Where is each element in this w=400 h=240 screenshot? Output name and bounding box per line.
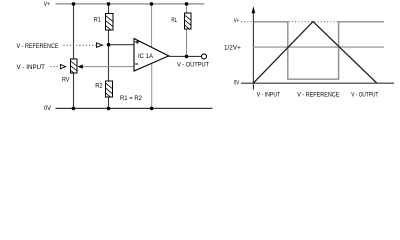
node bottom rail junction F — [107, 107, 111, 111]
wire R2 bottom leg — [108, 97, 110, 108]
node reference junction — [107, 43, 111, 47]
svg-text:IC 1A: IC 1A — [138, 53, 154, 60]
wire RL top leg — [186, 4, 188, 13]
svg-text:V - OUTPUT: V - OUTPUT — [351, 92, 378, 99]
wire op-amp V- supply — [151, 63, 153, 108]
node top rail junction B — [107, 2, 111, 6]
svg-text:R1 = R2: R1 = R2 — [120, 95, 142, 102]
svg-text:V - REFERENCE: V - REFERENCE — [297, 92, 339, 99]
dashed leader V - REFERENCE — [63, 44, 96, 46]
RV wiper arrow — [78, 65, 83, 69]
resistor RL — [185, 13, 192, 29]
node output junction — [185, 55, 189, 59]
wire top rail V+ — [56, 3, 205, 5]
wire RV top leg — [73, 4, 75, 59]
svg-text:V+: V+ — [44, 1, 50, 8]
node bottom rail junction E — [72, 107, 76, 111]
graph half supply level line — [253, 46, 384, 48]
op-amp plus input marker — [135, 40, 139, 44]
potentiometer RV — [71, 59, 78, 73]
svg-text:V+: V+ — [234, 18, 239, 25]
graph V+ dotted level — [289, 21, 338, 23]
svg-text:R1: R1 — [94, 16, 101, 23]
node bottom rail junction G — [150, 107, 154, 111]
op-amp IC1A triangle — [134, 39, 169, 72]
wire inverting input from RV wiper — [82, 66, 134, 68]
svg-text:0V: 0V — [44, 105, 52, 112]
graph output square wave — [254, 22, 384, 79]
graph 0V baseline — [241, 82, 394, 84]
graph V+ leader dots — [241, 21, 252, 23]
graph input triangle wave — [253, 22, 376, 84]
wire R1 top leg — [108, 4, 110, 14]
op-amp minus input marker — [135, 63, 138, 65]
wire RL bottom leg — [186, 29, 188, 56]
wire R1-R2 connector — [108, 30, 110, 81]
node top rail junction A — [72, 2, 76, 6]
node top rail junction D — [185, 2, 189, 6]
resistor R2 — [106, 81, 113, 97]
svg-text:RV: RV — [62, 77, 70, 84]
svg-text:R2: R2 — [95, 83, 103, 90]
wire non-inverting input — [109, 44, 135, 46]
arrowhead V - INPUT — [60, 64, 65, 68]
svg-text:V - REFERENCE: V - REFERENCE — [17, 43, 59, 50]
dashed leader V - INPUT — [50, 66, 60, 68]
resistor R1 — [106, 14, 114, 31]
graph y-axis — [252, 11, 254, 90]
svg-text:0V: 0V — [234, 80, 240, 87]
svg-text:V - OUTPUT: V - OUTPUT — [177, 62, 209, 69]
graph y-axis arrowhead — [252, 6, 256, 13]
wire bottom rail 0V — [56, 107, 213, 109]
svg-text:RL: RL — [171, 17, 177, 24]
output terminal circle — [202, 54, 207, 59]
wire RV bottom leg — [73, 73, 75, 108]
node top rail junction C — [150, 2, 154, 6]
svg-text:1/2V+: 1/2V+ — [224, 44, 241, 51]
arrowhead V - REFERENCE — [97, 43, 103, 47]
svg-text:V - INPUT: V - INPUT — [257, 92, 281, 99]
svg-text:V - INPUT: V - INPUT — [17, 64, 46, 71]
wire op-amp V+ supply — [151, 4, 153, 47]
wire output — [169, 55, 202, 57]
